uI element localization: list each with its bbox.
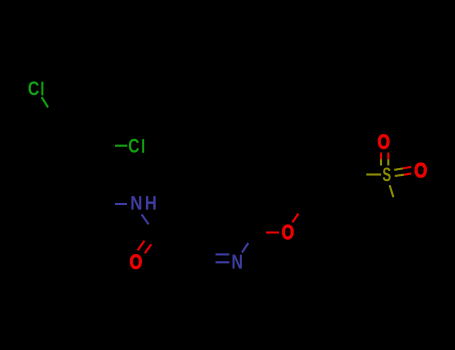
bond S-CH3 methyl (olive half) — [366, 173, 381, 175]
ether O label — [282, 225, 293, 239]
chlorine Cl1 label 'l' — [41, 82, 43, 96]
sulfur S label — [383, 167, 391, 181]
chlorine Cl2 label 'l' — [142, 139, 144, 153]
double bond S=O right line 1 red half — [403, 167, 411, 169]
double bond S=O top line 2 red half — [387, 153, 389, 160]
double bond S=O top line 1 olive half — [380, 159, 382, 165]
double bond S=O right line 2 olive half — [395, 175, 404, 176]
bond N-C carbonyl (blue half) — [142, 214, 149, 224]
double bond S=O right line 2 red half — [404, 174, 411, 175]
chlorine Cl2 label 'C' — [129, 139, 139, 153]
sulfonyl right O label — [415, 163, 427, 177]
double bond C6=N pyridine line 2 (blue half) — [216, 261, 230, 263]
bond C2-Cl2 (green half) — [115, 145, 127, 147]
double bond C6=N pyridine line 1 (blue half) — [216, 253, 230, 255]
carbonyl O label — [130, 254, 141, 268]
amide H label — [146, 196, 156, 209]
bond C4-Cl1 (green half, dichlorophenyl ring to chlorine) — [42, 97, 48, 107]
bond C2-O ether (red half) — [266, 231, 279, 233]
pyridine N label — [233, 255, 242, 269]
sulfonyl top O label — [378, 134, 389, 148]
double bond C=O carbonyl line 1 (red half) — [138, 241, 145, 251]
double bond S=O top line 2 olive half — [387, 159, 389, 165]
bond N-C2 pyridine (blue half) — [242, 243, 248, 253]
bond S-phenyl (olive half) — [390, 185, 394, 197]
double bond C=O carbonyl line 2 (red half) — [145, 244, 151, 253]
double bond S=O right line 1 olive half — [394, 168, 403, 170]
bond CH2-N amide (blue half) — [115, 203, 127, 205]
double bond S=O top line 1 red half — [380, 153, 382, 160]
chlorine Cl1 label 'C' — [28, 81, 38, 95]
bond O-CH2 benzylic (red half) — [292, 214, 298, 223]
amide N label — [131, 196, 141, 209]
